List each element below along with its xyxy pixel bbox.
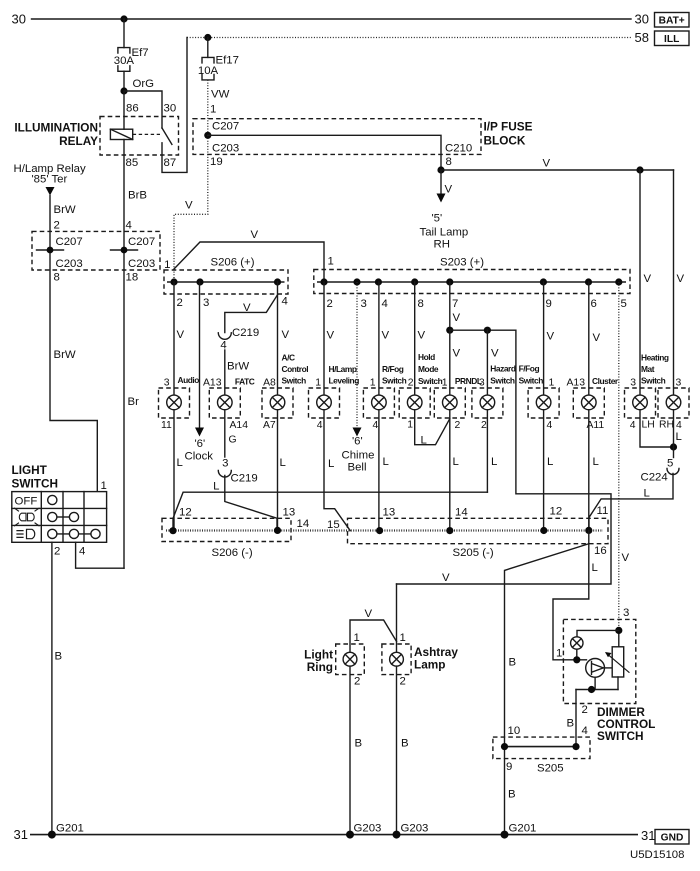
fuse Ef7 30A: [114, 47, 149, 71]
svg-text:Bell: Bell: [348, 462, 367, 474]
svg-text:S205: S205: [537, 763, 564, 775]
lamp H/Lamp leveling illumination: [309, 388, 340, 418]
svg-text:3: 3: [164, 378, 170, 389]
svg-text:Switch: Switch: [641, 376, 666, 386]
svg-text:2: 2: [54, 220, 60, 232]
svg-text:Switch: Switch: [282, 376, 307, 386]
arrow from H/Lamp Relay: [46, 187, 55, 196]
svg-text:L: L: [328, 458, 334, 470]
wire: V/L R/Fog switch illumination: [378, 282, 380, 531]
svg-text:L: L: [593, 456, 599, 468]
svg-text:3: 3: [361, 298, 367, 310]
svg-text:4: 4: [676, 420, 682, 431]
svg-text:C203: C203: [128, 258, 155, 270]
svg-text:L: L: [421, 435, 427, 447]
svg-text:Hold: Hold: [418, 352, 435, 362]
wire: BrW to light switch pin 1: [50, 196, 97, 492]
svg-text:2: 2: [408, 378, 414, 389]
svg-text:2: 2: [354, 676, 360, 688]
svg-text:R/Fog: R/Fog: [382, 364, 404, 374]
svg-text:30A: 30A: [114, 55, 135, 67]
lamp Hold mode switch illumination: [399, 388, 430, 418]
svg-text:G201: G201: [509, 823, 537, 835]
svg-text:1: 1: [210, 104, 216, 116]
svg-text:A11: A11: [587, 420, 605, 431]
wire: L Heating RH return: [673, 410, 675, 458]
svg-text:BrW: BrW: [54, 204, 76, 216]
wire: VW from Ef17 to C207: [207, 80, 209, 135]
lamp dimmer pilot lamp: [571, 637, 583, 649]
ground G201 (left): [48, 831, 56, 839]
svg-text:RH: RH: [434, 239, 450, 251]
svg-text:30: 30: [635, 12, 649, 27]
wire: S205 lower bus: [505, 746, 577, 748]
svg-text:2: 2: [582, 704, 588, 716]
svg-text:S205 (-): S205 (-): [453, 547, 494, 559]
wire: V to Heating Mat LH lamp: [639, 170, 641, 395]
wire: L Heating LH return: [640, 410, 674, 447]
connector box C207/C203 (left): [32, 231, 160, 270]
svg-text:C219: C219: [231, 473, 258, 485]
wire: ILL bus to fuse Ef17: [207, 38, 209, 58]
svg-text:V: V: [445, 184, 453, 196]
light switch contacts row 2 (park): [48, 512, 79, 521]
svg-text:2: 2: [481, 420, 487, 431]
svg-text:V: V: [243, 302, 251, 314]
svg-text:ILL: ILL: [664, 34, 679, 45]
lamp Cluster illumination: [573, 388, 604, 418]
svg-text:RELAY: RELAY: [59, 134, 98, 148]
svg-text:C203: C203: [56, 258, 83, 270]
svg-text:BrW: BrW: [54, 349, 76, 361]
svg-text:LH: LH: [642, 420, 655, 431]
svg-text:C207: C207: [56, 236, 83, 248]
DIMMER CONTROL SWITCH box: [563, 619, 635, 703]
svg-text:VW: VW: [211, 89, 230, 101]
wire: V S203 pin5 to dimmer switch: [618, 282, 620, 630]
svg-text:F/Fog: F/Fog: [519, 364, 540, 374]
svg-text:GND: GND: [661, 833, 684, 844]
svg-text:C219: C219: [232, 327, 259, 339]
svg-text:A/C: A/C: [282, 353, 295, 363]
svg-text:87: 87: [164, 157, 177, 169]
svg-text:7: 7: [452, 298, 458, 310]
GND terminal box: [655, 830, 689, 845]
wire: Br light switch pin 4: [76, 542, 124, 568]
lamp F/Fog switch illumination: [528, 388, 559, 418]
svg-text:L: L: [491, 456, 497, 468]
svg-text:L: L: [383, 456, 389, 468]
lamp Heating mat switch LH illumination: [625, 388, 656, 418]
svg-text:86: 86: [126, 103, 139, 115]
svg-text:9: 9: [506, 761, 512, 773]
svg-text:8: 8: [446, 156, 452, 168]
svg-text:Mat: Mat: [641, 364, 655, 374]
svg-text:5: 5: [667, 458, 673, 470]
svg-text:Br: Br: [128, 396, 140, 408]
svg-text:'85' Ter: '85' Ter: [32, 174, 68, 186]
svg-text:SWITCH: SWITCH: [597, 729, 644, 743]
svg-text:4: 4: [317, 420, 323, 431]
svg-text:A7: A7: [263, 420, 276, 431]
svg-text:U5D15108: U5D15108: [630, 849, 684, 861]
splice S206 (+): [164, 270, 288, 294]
svg-text:1: 1: [556, 648, 562, 660]
svg-text:Switch: Switch: [382, 376, 407, 386]
svg-text:31: 31: [14, 827, 28, 842]
svg-text:Ef7: Ef7: [132, 47, 149, 59]
wire: L FATC return to S206(-) 13: [225, 476, 277, 531]
wire: 30 bus to fuse Ef7: [123, 19, 125, 48]
svg-text:V: V: [677, 273, 685, 285]
connector C219 (pin 3): [218, 471, 231, 478]
wire: transistor emitter: [594, 677, 596, 689]
svg-text:10A: 10A: [198, 65, 219, 77]
wire: B light switch to G201: [51, 542, 53, 834]
svg-text:Mode: Mode: [418, 364, 439, 374]
svg-text:19: 19: [210, 156, 223, 168]
svg-text:V: V: [382, 330, 390, 342]
svg-text:PRNDL: PRNDL: [455, 376, 482, 386]
svg-text:5: 5: [621, 298, 627, 310]
connector symbol (BrW): [37, 249, 64, 251]
svg-text:'6': '6': [195, 438, 206, 450]
svg-text:30: 30: [12, 12, 26, 27]
svg-text:11: 11: [597, 505, 609, 517]
svg-text:SWITCH: SWITCH: [12, 477, 59, 491]
svg-text:3: 3: [630, 378, 636, 389]
svg-text:C210: C210: [445, 143, 472, 155]
svg-text:RH: RH: [659, 420, 674, 431]
svg-text:S206 (-): S206 (-): [212, 547, 253, 559]
svg-text:B: B: [509, 657, 517, 669]
lamp R/Fog switch illumination: [363, 388, 394, 418]
lamp Audio illumination: [159, 388, 190, 418]
svg-text:V: V: [622, 552, 630, 564]
icon: position lamps: [15, 508, 40, 526]
svg-text:Chime: Chime: [342, 450, 375, 462]
wire: B S205 to G201: [505, 544, 589, 835]
svg-text:Heating: Heating: [641, 353, 669, 363]
svg-text:A14: A14: [230, 420, 249, 431]
svg-text:8: 8: [418, 298, 424, 310]
svg-text:B: B: [508, 789, 516, 801]
svg-text:30: 30: [164, 103, 177, 115]
svg-text:I/P FUSE: I/P FUSE: [484, 120, 533, 134]
svg-text:85: 85: [126, 157, 139, 169]
svg-text:1: 1: [549, 378, 555, 389]
wire: dimmer pin 3 to rheostat: [618, 630, 620, 646]
wire: V/B ashtray lamp: [396, 584, 398, 835]
svg-text:4: 4: [126, 220, 132, 232]
svg-text:C224: C224: [641, 472, 668, 484]
ground G203 (ashtray): [393, 831, 401, 839]
svg-text:4: 4: [630, 420, 636, 431]
wire: V feed to light ring/ashtray: [397, 330, 612, 584]
svg-text:4: 4: [547, 420, 553, 431]
svg-text:L: L: [676, 431, 682, 443]
wire: 31/GND bus: [30, 834, 638, 836]
svg-text:Lamp: Lamp: [414, 658, 445, 672]
svg-text:B: B: [355, 738, 363, 750]
svg-text:1: 1: [400, 632, 406, 644]
svg-text:V: V: [593, 332, 601, 344]
svg-text:V: V: [282, 329, 290, 341]
svg-text:V: V: [418, 330, 426, 342]
svg-text:V: V: [365, 608, 373, 620]
wire: V/L Hazard switch illumination: [486, 330, 488, 492]
wire: V/L A/C control switch illumination: [277, 282, 279, 530]
svg-text:11: 11: [161, 420, 172, 431]
svg-text:V: V: [185, 200, 193, 212]
svg-text:Cluster: Cluster: [592, 376, 619, 386]
svg-text:'5': '5': [432, 213, 443, 225]
ground G203 (light ring): [346, 831, 354, 839]
wire: 58/ILL bus (dotted): [187, 37, 631, 39]
wire: S203(+) bus: [317, 281, 626, 283]
svg-text:Switch: Switch: [519, 376, 544, 386]
svg-text:A8: A8: [263, 378, 276, 389]
svg-text:L: L: [280, 457, 286, 469]
wire: dimmer internal to lamp: [577, 630, 619, 636]
svg-text:6: 6: [591, 298, 597, 310]
svg-text:S206 (+): S206 (+): [211, 257, 255, 269]
svg-text:OrG: OrG: [133, 78, 155, 90]
wire: V/L Audio illumination: [173, 282, 175, 531]
wire: transistor to rheostat: [604, 667, 612, 669]
svg-text:18: 18: [126, 272, 139, 284]
wire: relay coil 85 / BrB / Br down: [123, 91, 125, 568]
wire: V branch to Tail Lamp RH: [440, 170, 442, 194]
wire: S206(-)/S205(-) bus: [166, 529, 603, 531]
ground G201 (right): [501, 831, 509, 839]
relay coil: [110, 129, 132, 139]
svg-text:3: 3: [203, 297, 209, 309]
lamp Ashtray Lamp illumination: [382, 644, 411, 675]
svg-text:4: 4: [373, 420, 379, 431]
svg-text:3: 3: [676, 378, 682, 389]
splice S206 (-): [162, 518, 291, 541]
splice S205 (lower): [493, 737, 590, 759]
lamp Light Ring illumination: [336, 644, 365, 675]
svg-text:9: 9: [546, 298, 552, 310]
svg-text:4: 4: [282, 296, 288, 308]
svg-text:V: V: [543, 158, 551, 170]
svg-text:2: 2: [455, 420, 461, 431]
relay switch blade: [162, 128, 172, 144]
svg-text:L: L: [213, 481, 219, 493]
svg-text:4: 4: [382, 298, 388, 310]
svg-text:16: 16: [594, 545, 607, 557]
svg-text:4: 4: [582, 725, 588, 737]
wire: rheostat bottom: [617, 677, 619, 690]
svg-text:'6': '6': [352, 436, 363, 448]
svg-text:V: V: [251, 229, 259, 241]
svg-text:13: 13: [283, 507, 296, 519]
svg-text:58: 58: [635, 30, 649, 45]
wire: 30/BAT+ bus (top): [32, 18, 632, 20]
wire: V/B light ring lamp: [350, 620, 397, 835]
svg-text:2: 2: [177, 297, 183, 309]
svg-text:BAT+: BAT+: [659, 16, 685, 27]
icon: headlamp: [17, 529, 35, 538]
lamp PRNDL illumination: [434, 388, 465, 418]
svg-text:G: G: [229, 435, 237, 446]
wire: dimmer internal bottom: [576, 689, 618, 691]
svg-text:1: 1: [101, 480, 107, 492]
wire: L heating returns to S205(-) 11: [589, 474, 673, 531]
lamp Hazard switch illumination: [472, 388, 503, 418]
relay box: ILLUMINATION RELAY: [100, 117, 179, 156]
ILL terminal box: [655, 31, 690, 46]
svg-text:V: V: [491, 348, 499, 360]
svg-text:BLOCK: BLOCK: [484, 134, 526, 148]
svg-text:1: 1: [354, 632, 360, 644]
svg-text:V: V: [327, 330, 335, 342]
wire: V to Chime Bell: [356, 282, 358, 428]
svg-text:Switch: Switch: [490, 376, 515, 386]
rheostat (variable resistor): [605, 647, 629, 677]
svg-text:OFF: OFF: [15, 496, 38, 508]
svg-text:Ef17: Ef17: [216, 55, 239, 67]
svg-text:A13: A13: [567, 378, 586, 389]
wire: L S205 16 to dimmer pin 1: [553, 530, 589, 659]
svg-text:BrW: BrW: [227, 361, 249, 373]
svg-text:A13: A13: [203, 378, 222, 389]
wire: B dimmer pin 2 to S205 pin 4: [575, 690, 577, 747]
wire: V/L Cluster illumination: [588, 282, 590, 530]
svg-text:1: 1: [407, 420, 413, 431]
svg-text:8: 8: [54, 272, 60, 284]
svg-text:14: 14: [455, 507, 468, 519]
svg-text:V: V: [453, 312, 461, 324]
fuse Ef17 10A: [198, 55, 239, 80]
wire: lamp to node: [576, 649, 578, 660]
svg-text:V: V: [547, 331, 555, 343]
svg-text:31: 31: [641, 828, 655, 843]
svg-text:C207: C207: [128, 236, 155, 248]
BAT+ terminal box: [655, 13, 690, 28]
svg-text:2: 2: [400, 676, 406, 688]
svg-text:L: L: [547, 456, 553, 468]
svg-text:V: V: [644, 273, 652, 285]
svg-text:G201: G201: [56, 823, 84, 835]
svg-text:2: 2: [54, 546, 60, 558]
svg-text:10: 10: [508, 725, 521, 737]
wire: V/L PRNDL illumination: [449, 330, 451, 530]
svg-text:C203: C203: [212, 143, 239, 155]
svg-text:Switch: Switch: [418, 376, 443, 386]
svg-text:15: 15: [327, 519, 340, 531]
wire: V to Clock: [199, 282, 201, 428]
wire: OrG to relay 30 contact: [124, 91, 162, 128]
svg-text:FATC: FATC: [235, 377, 255, 387]
light switch contacts row 1 (OFF): [48, 495, 57, 504]
svg-text:1: 1: [164, 259, 170, 271]
svg-text:H/Lamp: H/Lamp: [329, 364, 357, 374]
svg-text:13: 13: [383, 507, 396, 519]
wire: V from S203 pin 7: [449, 282, 451, 330]
svg-text:L: L: [453, 456, 459, 468]
wire: L return collector to S206(-) 12: [173, 492, 487, 531]
wire: V feed line to heating mat lamps: [441, 169, 674, 171]
svg-text:B: B: [567, 718, 575, 730]
wire: V branch to FATC via C219: [225, 295, 278, 333]
svg-text:1: 1: [442, 378, 448, 389]
wire: C207 node to C210 pin 8: [208, 135, 441, 170]
svg-text:V: V: [442, 572, 450, 584]
wire: VW down to S206(+) pin 1: [174, 135, 208, 282]
wire: Ef7 to OrG node: [123, 71, 125, 91]
wire: V/L F/Fog switch illumination: [543, 282, 545, 530]
svg-text:1: 1: [370, 378, 376, 389]
svg-text:S203 (+): S203 (+): [440, 257, 484, 269]
svg-text:B: B: [401, 738, 409, 750]
svg-text:LIGHT: LIGHT: [12, 463, 48, 477]
relay coil-contact link (dashed): [133, 133, 160, 135]
svg-text:BrB: BrB: [128, 190, 147, 202]
svg-text:14: 14: [297, 518, 310, 530]
svg-text:L: L: [177, 457, 183, 469]
svg-text:Clock: Clock: [185, 451, 214, 463]
svg-text:B: B: [55, 651, 63, 663]
svg-text:ILLUMINATION: ILLUMINATION: [14, 121, 98, 135]
connector C219 (pin 4): [218, 333, 231, 340]
light switch contacts row 3 (head): [48, 529, 100, 538]
svg-text:Leveling: Leveling: [329, 376, 360, 386]
svg-text:C207: C207: [212, 121, 239, 133]
wire: V feed S206 to S203: [174, 242, 324, 282]
svg-text:Ring: Ring: [307, 660, 333, 674]
connector symbol (BrB): [111, 249, 138, 251]
svg-text:2: 2: [327, 298, 333, 310]
svg-text:Audio: Audio: [178, 375, 200, 385]
lamp FATC illumination: [209, 388, 240, 418]
svg-text:3: 3: [222, 458, 228, 470]
svg-text:1: 1: [328, 256, 334, 268]
svg-text:4: 4: [220, 340, 226, 352]
svg-text:3: 3: [623, 607, 629, 619]
svg-text:L: L: [644, 488, 650, 500]
svg-text:Control: Control: [282, 364, 309, 374]
svg-text:L: L: [592, 562, 598, 574]
splice S203 (+): [314, 270, 630, 294]
svg-text:12: 12: [179, 507, 192, 519]
svg-text:V: V: [453, 348, 461, 360]
wire: S206(+) bus: [167, 281, 285, 283]
transistor Q (dimmer): [586, 659, 605, 678]
wire: V/L Hold mode switch illumination: [415, 282, 450, 445]
svg-text:3: 3: [479, 378, 485, 389]
connector C224: [667, 469, 679, 475]
wire: V/L H-Lamp leveling: [324, 282, 350, 531]
lamp A/C control switch illumination: [262, 388, 293, 418]
svg-text:Hazard: Hazard: [490, 364, 516, 374]
wire: BrW FATC illumination: [224, 350, 226, 457]
svg-text:G203: G203: [354, 823, 382, 835]
wire: relay 87 up to ILL bus: [162, 38, 187, 173]
wire: V to Heating Mat RH lamp: [673, 170, 675, 395]
svg-text:V: V: [177, 329, 185, 341]
lamp Heating mat switch RH illumination: [658, 388, 689, 418]
svg-text:Tail Lamp: Tail Lamp: [420, 227, 469, 239]
svg-text:12: 12: [550, 506, 563, 518]
light switch contact table: [12, 492, 107, 543]
svg-text:4: 4: [79, 546, 85, 558]
svg-text:G203: G203: [401, 823, 429, 835]
connector box C207/C203/C210 (I/P fuse block): [193, 119, 481, 155]
splice S205 (-): [348, 518, 609, 543]
